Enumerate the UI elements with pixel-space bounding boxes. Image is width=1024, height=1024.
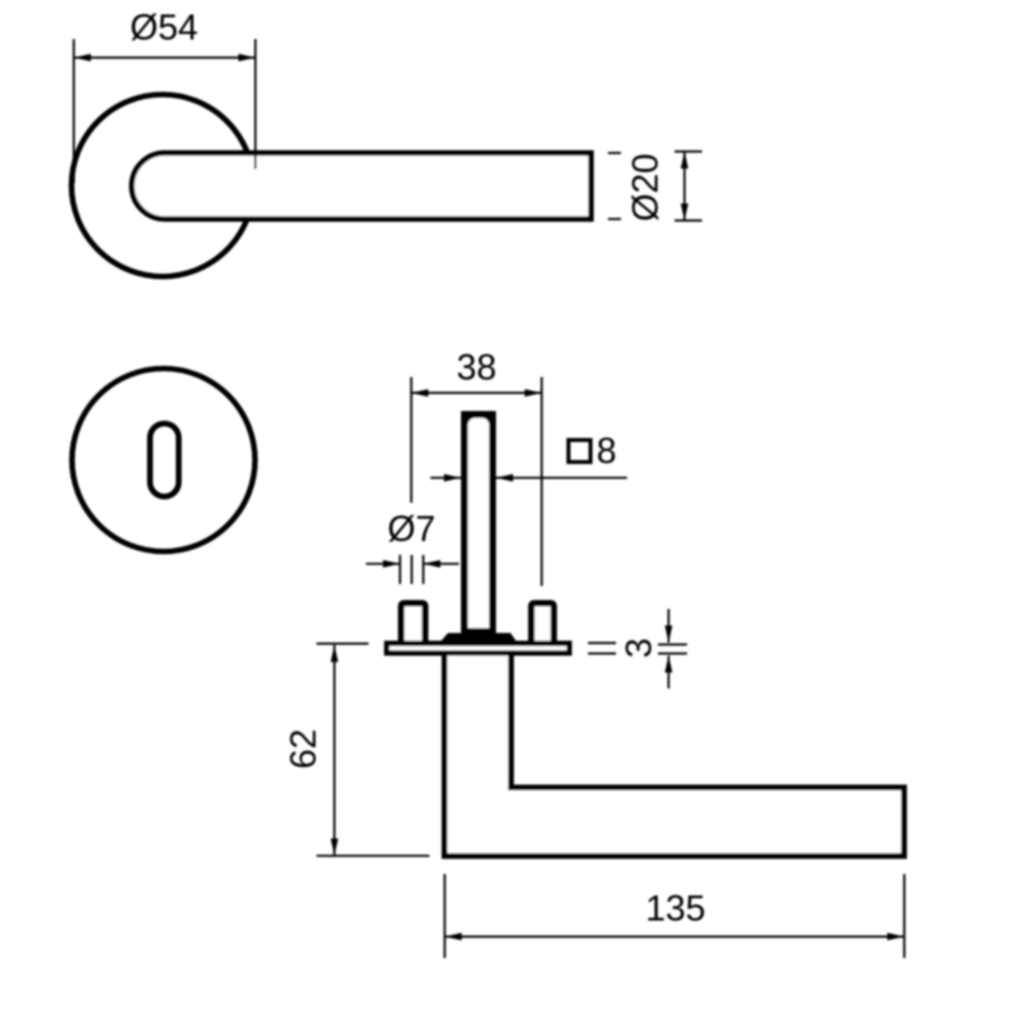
svg-text:38: 38	[456, 347, 496, 388]
svg-text:62: 62	[283, 729, 324, 769]
svg-text:Ø20: Ø20	[625, 153, 666, 221]
svg-text:135: 135	[645, 888, 705, 929]
svg-text:8: 8	[597, 430, 617, 471]
svg-text:Ø7: Ø7	[387, 508, 435, 549]
svg-text:Ø54: Ø54	[130, 7, 198, 48]
svg-text:3: 3	[618, 638, 659, 658]
